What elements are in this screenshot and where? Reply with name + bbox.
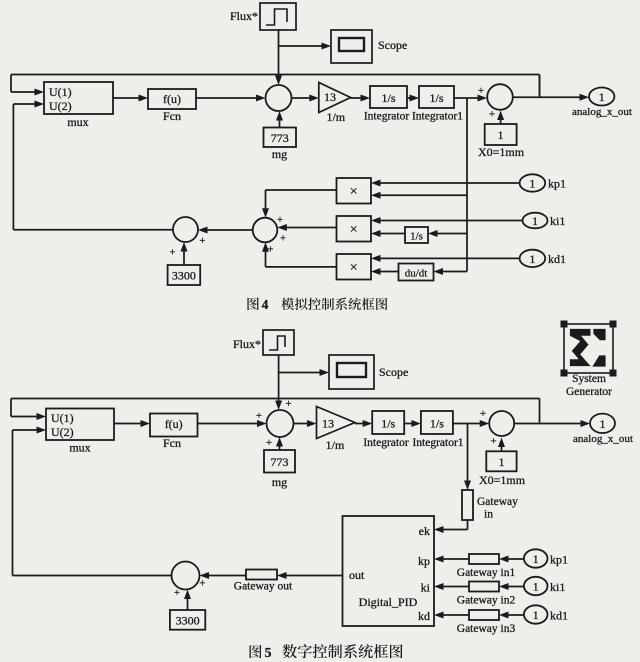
svg-text:Fcn: Fcn (163, 436, 181, 450)
svg-text:773: 773 (271, 131, 289, 145)
svg-text:kd: kd (418, 609, 430, 623)
svg-text:Flux*: Flux* (233, 337, 261, 351)
svg-text:Integrator1: Integrator1 (412, 437, 463, 449)
svg-text:1: 1 (499, 455, 505, 469)
svg-text:X0=1mm: X0=1mm (479, 473, 526, 487)
svg-text:13: 13 (322, 417, 334, 431)
svg-text:X0=1mm: X0=1mm (478, 145, 525, 159)
svg-text:1/m: 1/m (326, 110, 345, 124)
svg-text:mux: mux (67, 115, 88, 129)
svg-text:Gateway out: Gateway out (234, 581, 293, 593)
svg-text:mux: mux (69, 441, 90, 455)
svg-text:U(2): U(2) (51, 425, 74, 439)
svg-text:U(1): U(1) (51, 411, 74, 425)
svg-text:4: 4 (262, 297, 269, 312)
svg-text:Scope: Scope (379, 365, 408, 379)
svg-text:1/s: 1/s (410, 231, 423, 243)
svg-text:1/s: 1/s (430, 417, 444, 431)
svg-text:ki: ki (421, 581, 431, 595)
svg-text:+: + (277, 215, 283, 226)
svg-text:Digital_PID: Digital_PID (359, 595, 418, 609)
svg-text:Scope: Scope (378, 38, 407, 52)
svg-text:5: 5 (265, 646, 272, 661)
svg-text:kd1: kd1 (550, 609, 568, 623)
svg-text:Fcn: Fcn (163, 109, 181, 123)
svg-text:Flux*: Flux* (230, 9, 258, 23)
svg-text:ki1: ki1 (550, 580, 565, 594)
svg-text:+: + (266, 437, 272, 449)
svg-text:analog_x_out: analog_x_out (572, 106, 632, 118)
svg-text:+: + (480, 408, 486, 420)
svg-text:+: + (200, 579, 206, 590)
svg-text:+: + (256, 410, 262, 422)
svg-text:Gateway in1: Gateway in1 (457, 567, 516, 579)
svg-text:×: × (350, 185, 358, 200)
svg-text:1: 1 (533, 552, 539, 566)
svg-text:System: System (572, 373, 606, 385)
svg-text:773: 773 (271, 455, 289, 469)
svg-text:+: + (280, 234, 286, 245)
svg-text:+: + (200, 236, 206, 247)
svg-text:ek: ek (419, 524, 430, 538)
svg-text:+: + (285, 398, 291, 410)
svg-text:+: + (478, 85, 484, 97)
svg-text:ki1: ki1 (550, 214, 565, 228)
svg-text:Integrator: Integrator (364, 111, 410, 123)
svg-text:3300: 3300 (172, 269, 196, 283)
svg-text:1/s: 1/s (381, 91, 395, 105)
svg-text:+: + (268, 245, 274, 256)
svg-text:out: out (349, 568, 365, 582)
svg-text:1: 1 (529, 177, 535, 191)
svg-text:+: + (490, 436, 496, 448)
svg-text:1: 1 (600, 417, 606, 431)
svg-text:Gateway in2: Gateway in2 (457, 595, 516, 607)
svg-text:+: + (170, 248, 176, 259)
svg-text:U(1): U(1) (49, 85, 72, 99)
svg-text:kd1: kd1 (548, 252, 566, 266)
svg-text:1/s: 1/s (381, 417, 395, 431)
svg-text:1: 1 (498, 128, 504, 142)
svg-text:analog_x_out: analog_x_out (573, 433, 633, 445)
svg-text:1/m: 1/m (326, 438, 345, 452)
svg-text:1: 1 (533, 580, 539, 594)
svg-text:1: 1 (532, 214, 538, 228)
svg-text:+: + (174, 588, 180, 599)
svg-text:f(u): f(u) (163, 92, 181, 106)
svg-text:Gateway: Gateway (477, 496, 518, 508)
svg-text:1/s: 1/s (429, 91, 443, 105)
svg-text:Gateway in3: Gateway in3 (457, 623, 516, 635)
svg-text:×: × (350, 223, 358, 238)
svg-text:in: in (484, 509, 493, 521)
svg-text:+: + (489, 109, 495, 121)
svg-text:kp1: kp1 (550, 553, 568, 567)
svg-text:Integrator: Integrator (363, 437, 409, 449)
svg-text:1: 1 (599, 90, 605, 104)
svg-text:Generator: Generator (566, 386, 612, 398)
svg-text:mg: mg (272, 475, 287, 489)
svg-text:mg: mg (272, 147, 287, 161)
svg-text:U(2): U(2) (49, 99, 72, 113)
svg-text:du/dt: du/dt (405, 268, 428, 280)
svg-text:kp1: kp1 (548, 177, 566, 191)
svg-text:1: 1 (529, 252, 535, 266)
svg-text:×: × (350, 261, 358, 276)
svg-text:kp: kp (418, 554, 430, 568)
svg-text:Integrator1: Integrator1 (412, 111, 463, 123)
svg-text:f(u): f(u) (165, 417, 183, 431)
svg-text:3300: 3300 (176, 614, 200, 628)
svg-text:13: 13 (324, 90, 336, 104)
svg-text:1: 1 (533, 608, 539, 622)
